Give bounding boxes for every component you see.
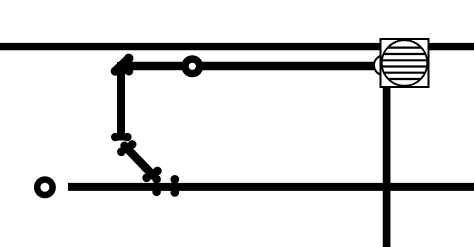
node C switch pivot dots (111, 133, 132, 142)
node B corner junction dots (111, 54, 134, 76)
node D blade top clamp dots (117, 140, 137, 156)
terminal T1 open ring (34, 176, 56, 198)
node B corner junction diagonal (116, 59, 129, 71)
speaker LS1 grille lines (380, 48, 429, 79)
node E blade bottom clamp dots (142, 167, 161, 183)
switch S1 blade (125, 146, 154, 176)
wire W5 right vertical (383, 84, 391, 247)
node A connector ring on middle wire (181, 55, 203, 77)
wire W4 bottom bus (68, 183, 474, 191)
speaker LS1 cone circle (382, 40, 428, 86)
node F bottom junction dots (152, 175, 179, 197)
wire W1 top bus (0, 43, 474, 50)
wire W3 left vertical (117, 62, 125, 141)
speaker LS1 left lug (374, 55, 394, 75)
wire W2 middle horizontal (127, 62, 375, 70)
speaker LS1 body box (381, 39, 429, 87)
